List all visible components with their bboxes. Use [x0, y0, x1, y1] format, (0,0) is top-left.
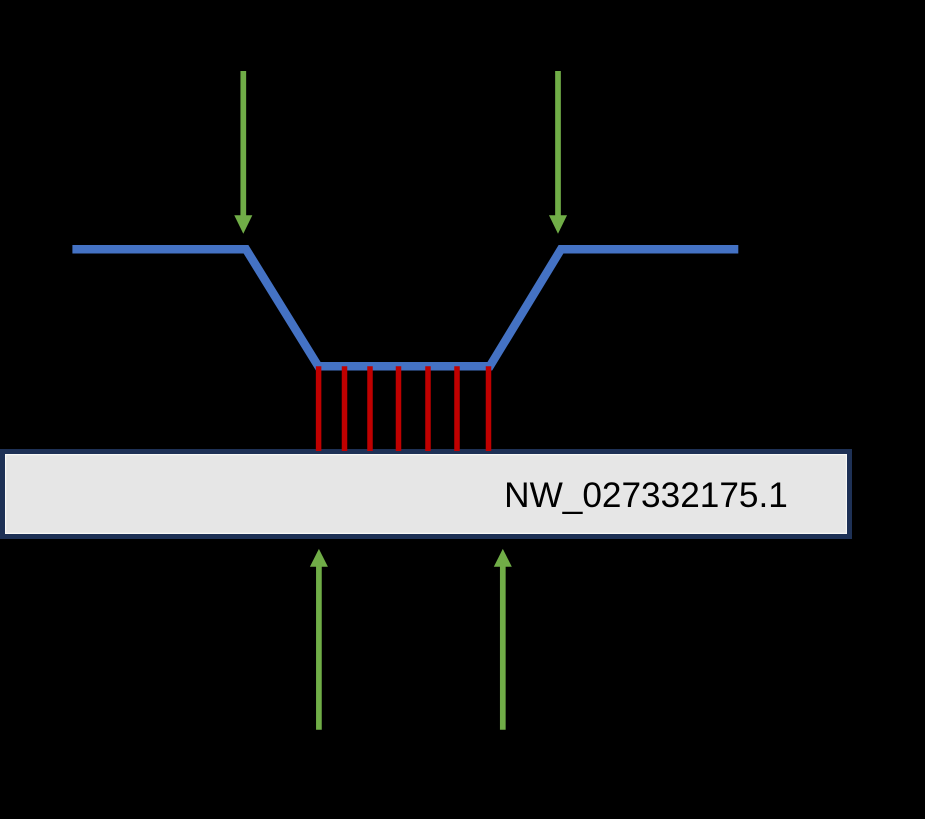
green down arrow right	[549, 71, 567, 234]
red tick 3	[367, 366, 373, 451]
node scaffold bar inner light edge	[6, 455, 847, 534]
green up arrow right	[494, 549, 512, 730]
node scaffold bar NW_027332175.1	[3, 452, 850, 537]
red tick 2	[342, 366, 348, 451]
green up arrow left	[310, 549, 328, 730]
svg-text:NW_027332175.1: NW_027332175.1	[504, 476, 788, 515]
green down arrow left	[234, 71, 252, 234]
red tick 7	[486, 366, 492, 451]
red tick 6	[454, 366, 460, 451]
wire blue transcript line (exon-intron path)	[72, 249, 738, 366]
red tick 1	[316, 366, 322, 451]
red tick 5	[425, 366, 431, 451]
red tick 4	[396, 366, 402, 451]
